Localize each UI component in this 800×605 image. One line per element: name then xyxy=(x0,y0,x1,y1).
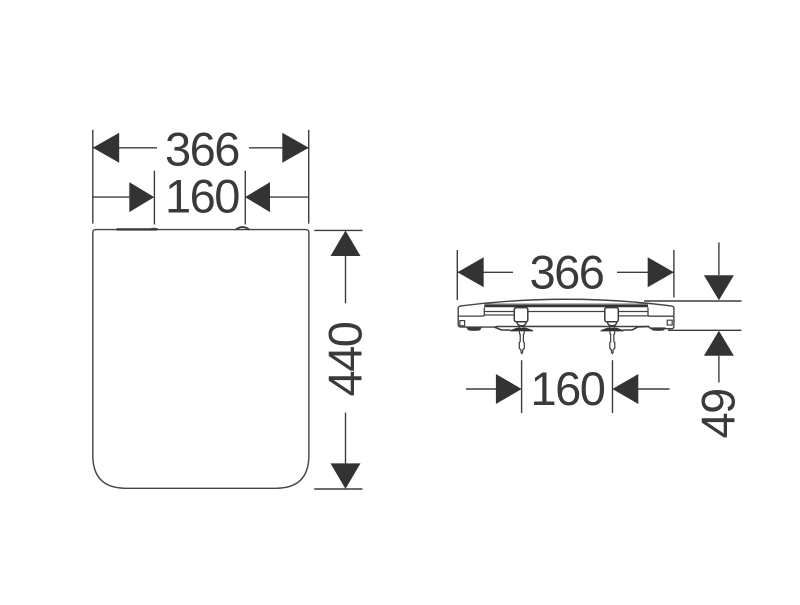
hinge right dome xyxy=(607,322,616,326)
dim 160 (side view) extension line right xyxy=(612,360,614,413)
foot pad left xyxy=(466,327,482,330)
hinge left washer xyxy=(510,328,533,332)
dim 160 extension line right xyxy=(244,171,246,225)
lid seam left step xyxy=(483,308,484,317)
dim 366 dimension line xyxy=(93,147,157,149)
lid seam left segment xyxy=(459,315,484,317)
seat outline (top view) xyxy=(93,230,309,489)
dim 440 extension line top xyxy=(314,229,362,231)
dim 160 (left drawing) extension line left xyxy=(153,171,155,225)
bumper box right xyxy=(667,320,672,325)
svg-text:366: 366 xyxy=(530,245,604,298)
bumper box left xyxy=(460,321,465,326)
seat profile outline (side view) xyxy=(458,299,674,328)
lid seam right segment xyxy=(650,315,674,317)
dim 440 extension line bottom xyxy=(314,488,362,490)
damper bump right xyxy=(236,227,250,230)
dim 366 (side view) dimension line xyxy=(457,271,513,273)
ref line top (49 dim) xyxy=(644,300,742,302)
dim 160 (side view) arrow left xyxy=(496,374,522,404)
dim 366 (side view) arrow right xyxy=(648,257,674,287)
dim 49 arrow down xyxy=(704,275,734,300)
dim 160 (side view) dimension line xyxy=(466,388,496,390)
ref line bottom (49 dim) xyxy=(668,329,742,331)
foot pad right xyxy=(650,327,666,330)
hinge right washer xyxy=(601,328,624,332)
hinge right neck xyxy=(610,326,615,328)
bottom step right of hinge xyxy=(623,327,649,331)
dim 366 extension line right xyxy=(308,130,310,224)
dim 366 (side view) arrow left xyxy=(458,257,484,287)
dim 366 (left drawing) extension line left xyxy=(92,130,94,224)
hinge left dome xyxy=(517,322,526,326)
lid seam main band dark xyxy=(484,305,648,307)
dim 440 dimension line xyxy=(345,256,347,303)
dim 366 (side view) extension line left xyxy=(456,250,458,300)
seat inner line y315 segments xyxy=(484,314,513,316)
dim 160 (side view) arrow right xyxy=(612,374,638,404)
svg-text:440: 440 xyxy=(318,322,371,396)
dim 160 (side view) extension line left xyxy=(521,360,523,413)
hinge left block xyxy=(514,308,528,322)
hinge right bolt xyxy=(610,331,615,353)
hinge left bolt xyxy=(519,331,524,353)
dim 49 dimension line upper xyxy=(718,243,720,276)
dim 366 arrow left xyxy=(93,133,119,163)
seat inner line y311 segments xyxy=(484,311,514,313)
dim 440 arrow up xyxy=(331,231,361,257)
dim 49 dimension line lower xyxy=(718,356,720,383)
svg-text:160: 160 xyxy=(531,362,605,415)
seat bottom line between hinges xyxy=(529,325,605,327)
hinge right block xyxy=(605,308,619,322)
lid seam main band upper xyxy=(484,303,648,305)
dim 366 (side view) extension line right xyxy=(673,250,675,298)
lid seam right step xyxy=(648,308,650,317)
dim 160 arrow left xyxy=(129,182,154,212)
hinge left neck xyxy=(519,326,524,328)
dim 160 arrow right xyxy=(245,182,270,212)
hinge mark left (thick segment on top edge) xyxy=(117,228,158,230)
bottom step left of hinge xyxy=(495,327,511,330)
dim 440 arrow down xyxy=(331,463,361,489)
svg-text:366: 366 xyxy=(165,122,239,175)
dim 49 arrow up xyxy=(704,331,734,356)
svg-text:160: 160 xyxy=(165,169,239,222)
dim 366 arrow right xyxy=(282,133,308,163)
svg-text:49: 49 xyxy=(692,389,745,438)
hinge nub left xyxy=(150,229,159,230)
dim 160 dimension line xyxy=(93,196,130,198)
